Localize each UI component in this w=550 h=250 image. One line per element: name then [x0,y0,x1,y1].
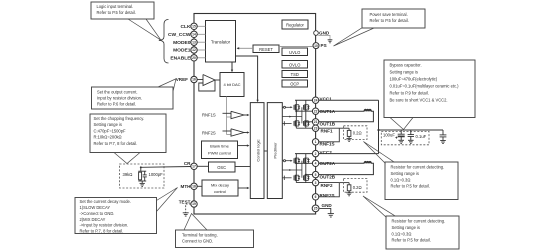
svg-text:TEST: TEST [179,199,191,204]
svg-text:Refer to P.5 for detail.: Refer to P.5 for detail. [391,184,430,189]
svg-text:12: 12 [192,48,196,52]
svg-text:Resistor for current detecting: Resistor for current detecting. [392,219,446,224]
svg-text:Resistor for current detecting: Resistor for current detecting. [391,165,445,170]
svg-text:OCP: OCP [290,82,299,87]
svg-text:OUT1B: OUT1B [320,122,336,127]
svg-text:RNF2S: RNF2S [202,130,216,135]
svg-text:23: 23 [314,126,318,130]
svg-text:18: 18 [192,185,196,189]
svg-text:21: 21 [314,120,318,124]
svg-text:RNF2S: RNF2S [320,193,335,198]
svg-text:Refer to P.5 for detail.: Refer to P.5 for detail. [370,18,409,23]
svg-text:control: control [214,189,226,194]
svg-text:19: 19 [192,202,196,206]
svg-text:Set the current decay mode.: Set the current decay mode. [80,199,131,204]
svg-text:RNF1: RNF1 [321,128,333,133]
svg-text:->Connect to GND.: ->Connect to GND. [80,211,115,216]
svg-text:UVLO: UVLO [289,50,300,55]
svg-text:Refer to P.5 for detail.: Refer to P.5 for detail. [392,238,431,243]
svg-text:PWM control: PWM control [208,150,231,155]
svg-text:17: 17 [192,165,196,169]
svg-text:4 bit DAC: 4 bit DAC [223,82,240,87]
svg-text:OSC: OSC [217,165,226,170]
svg-text:0.1Ω~0.3Ω: 0.1Ω~0.3Ω [391,177,411,182]
svg-text:CLK: CLK [180,24,191,30]
svg-text:Input by resistor division.: Input by resistor division. [97,96,142,101]
svg-text:Bypass capacitor.: Bypass capacitor. [390,63,422,68]
svg-text:0.1uF: 0.1uF [416,134,427,139]
svg-text:OVLO: OVLO [289,62,300,67]
svg-text:100uF~470uF(electrolytic): 100uF~470uF(electrolytic) [390,77,438,82]
svg-text:Refer to P.7, 8 for detail.: Refer to P.7, 8 for detail. [80,228,124,233]
svg-text:Refer to P.5 for detail.: Refer to P.5 for detail. [97,10,136,15]
svg-text:Blank time: Blank time [210,143,229,148]
svg-text:Control logic: Control logic [256,139,261,161]
svg-text:39kΩ: 39kΩ [123,172,133,177]
svg-text:Setting range is: Setting range is [94,122,122,127]
svg-text:Mix decay: Mix decay [211,182,229,187]
svg-text:Terminal for testing.: Terminal for testing. [182,233,218,238]
svg-text:C:470pF~1500pF: C:470pF~1500pF [94,128,126,133]
svg-text:CW_CCW: CW_CCW [168,32,191,38]
svg-text:RNF1S: RNF1S [320,142,335,147]
svg-text:Be sure to short VCC1 & VCC: Be sure to short VCC1 & VCC2. [390,98,448,103]
svg-text:Refer to P.7, 8 for detail.: Refer to P.7, 8 for detail. [94,141,138,146]
svg-text:0.2Ω: 0.2Ω [353,185,362,190]
svg-text:0.2Ω: 0.2Ω [353,131,362,136]
svg-text:MODE0: MODE0 [173,40,191,46]
svg-text:ENABLE: ENABLE [170,56,191,62]
svg-text:100uF: 100uF [383,133,395,138]
svg-text:PS: PS [321,43,327,48]
svg-text:14: 14 [192,33,196,37]
svg-text:RNF2: RNF2 [321,183,333,188]
svg-text:15: 15 [192,25,196,29]
svg-text:3: 3 [315,181,317,185]
svg-text:Setting range is: Setting range is [391,171,419,176]
svg-text:2: 2 [315,152,317,156]
svg-text:GND: GND [319,31,330,36]
svg-text:0.1Ω~0.3Ω: 0.1Ω~0.3Ω [392,231,412,236]
svg-text:VREF: VREF [176,77,188,82]
svg-text:Set the chopping frequency.: Set the chopping frequency. [94,116,145,121]
svg-text:CR: CR [184,161,191,166]
svg-text:Power save terminal.: Power save terminal. [370,12,408,17]
svg-text:6: 6 [315,195,317,199]
svg-text:Refer to P.9 for detail.: Refer to P.9 for detail. [390,91,429,96]
svg-text:13: 13 [192,40,196,44]
svg-text:Set the output current.: Set the output current. [97,90,138,95]
svg-text:RESET: RESET [259,47,273,52]
svg-text:5: 5 [315,173,317,177]
svg-text:10: 10 [314,44,318,48]
svg-text:Regulator: Regulator [286,23,304,28]
svg-text:TSD: TSD [291,72,299,77]
svg-text:R:10kΩ~200kΩ: R:10kΩ~200kΩ [94,135,122,140]
svg-text:->Input by resistor division.: ->Input by resistor division. [80,223,129,228]
svg-text:2)MIX DECAY: 2)MIX DECAY [80,217,106,222]
svg-text:GND: GND [322,203,333,208]
svg-text:Logic input terminal.: Logic input terminal. [97,4,134,9]
svg-text:4: 4 [315,162,317,166]
svg-text:MTH: MTH [181,184,192,189]
svg-text:1: 1 [315,140,317,144]
svg-text:25: 25 [314,207,318,211]
svg-text:Connect to GND.: Connect to GND. [182,239,213,244]
svg-text:Setting range is: Setting range is [390,70,418,75]
svg-text:1)SLOW DECAY: 1)SLOW DECAY [80,205,111,210]
svg-text:Refer to P.6 for detail.: Refer to P.6 for detail. [97,102,136,107]
svg-text:Setting range is: Setting range is [392,225,420,230]
svg-text:MODE1: MODE1 [173,48,191,54]
svg-text:20: 20 [192,56,196,60]
svg-text:24: 24 [314,98,318,102]
svg-text:16: 16 [192,78,196,82]
svg-text:1000pF: 1000pF [149,172,164,177]
svg-text:Predriver: Predriver [272,142,277,159]
svg-text:0.01uF~0.1uF(multilayer cerami: 0.01uF~0.1uF(multilayer ceramic etc.) [390,84,460,89]
svg-text:RNF1S: RNF1S [202,113,216,118]
svg-text:Translator: Translator [211,40,231,45]
svg-text:OUT2B: OUT2B [320,174,336,179]
svg-text:22: 22 [314,109,318,113]
